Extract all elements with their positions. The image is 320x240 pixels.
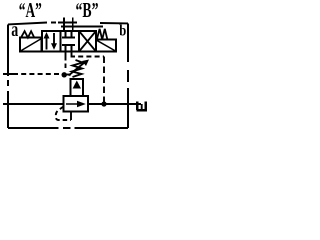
svg-text:b: b [119,23,126,40]
svg-text:“B”: “B” [76,0,99,22]
svg-text:“A”: “A” [19,0,42,22]
svg-text:a: a [11,19,18,41]
